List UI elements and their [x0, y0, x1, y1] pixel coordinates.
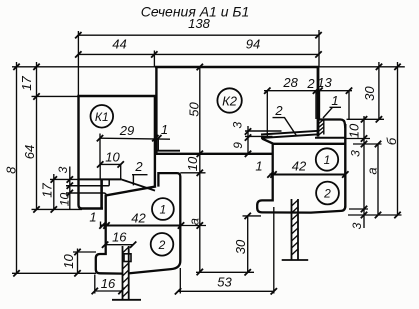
svg-text:53: 53: [217, 275, 232, 290]
label 1 right underline leader: [323, 107, 341, 118]
svg-text:3: 3: [56, 166, 70, 173]
extension y209.4 left: [32, 208, 83, 210]
K1 block top edge: [77, 95, 156, 97]
dim 29/1 line: [100, 138, 170, 139]
dim 10 bottom left vertical: [77, 249, 79, 274]
extension x94.8 down: [94, 275, 96, 294]
block1L ascending slope: [106, 186, 156, 195]
svg-text:3: 3: [350, 222, 364, 229]
dim 30 top right vertical: [378, 62, 380, 119]
extension x100: [99, 134, 101, 165]
extension line x154.4 top: [153, 51, 155, 68]
svg-text:2: 2: [274, 103, 283, 118]
block1R top edge: [262, 139, 345, 144]
dim 8 bottom extension: [12, 272, 96, 274]
extension x120.7 down: [120, 164, 122, 180]
extension y272.3: [196, 271, 254, 273]
svg-text:a: a: [364, 167, 379, 174]
svg-text:10: 10: [105, 149, 120, 164]
extension y138.5 right: [347, 138, 371, 140]
upper slope right: [261, 131, 319, 135]
dim 64 vertical: [36, 62, 38, 209]
svg-text:a: a: [186, 218, 201, 225]
svg-text:1: 1: [160, 203, 167, 217]
circle 2 left: [151, 233, 174, 256]
svg-text:1: 1: [255, 159, 262, 174]
svg-text:30: 30: [233, 239, 248, 254]
extension y136.4: [245, 135, 273, 137]
sash line y151: [158, 150, 181, 152]
svg-text:К1: К1: [95, 110, 109, 124]
svg-text:2: 2: [134, 159, 143, 174]
extension x100.5: [100, 222, 102, 229]
svg-text:30: 30: [362, 86, 377, 101]
tick on top line at x16.5: [13, 64, 19, 70]
extension y96.5 left: [32, 95, 79, 97]
extension y215.9: [243, 215, 262, 217]
svg-text:10: 10: [346, 123, 361, 138]
tick on top line at x397.5: [394, 64, 400, 70]
block1L left edge: [104, 195, 106, 226]
svg-text:16: 16: [112, 230, 127, 245]
inner short vertical x109: [108, 179, 110, 185]
dim 138 line: [78, 34, 318, 36]
extension line left x78: [77, 31, 79, 96]
dim 8 vertical: [16, 62, 18, 273]
top reference line thin right: [319, 66, 405, 68]
divider block1L/2L and dim 1/42: [101, 224, 182, 226]
anchor bar left: [122, 246, 124, 300]
svg-text:64: 64: [22, 145, 37, 159]
K1 block right edge: [154, 96, 156, 188]
svg-text:138: 138: [188, 16, 210, 31]
K1 bottom edge thick: [79, 178, 122, 180]
label 2 right underline leader: [273, 118, 297, 136]
svg-text:1: 1: [161, 122, 168, 137]
extension x349: [348, 91, 350, 120]
tick on top line at x379: [376, 64, 382, 70]
dim 53 line: [178, 290, 274, 292]
svg-text:1: 1: [331, 93, 338, 108]
circle 2 right: [316, 182, 339, 205]
extension y225.5 right of block: [181, 225, 206, 227]
top reference line thin left: [12, 66, 156, 68]
svg-text:17: 17: [19, 76, 34, 91]
svg-text:1: 1: [324, 153, 331, 167]
svg-text:К2: К2: [222, 93, 238, 108]
extension x158.3 down: [157, 139, 159, 151]
block1L top right step: [158, 173, 180, 225]
block1R right edge: [344, 124, 346, 208]
extension x180.3 down: [179, 268, 181, 294]
circle K1: [91, 105, 114, 128]
svg-text:29: 29: [119, 123, 134, 138]
svg-text:10: 10: [58, 193, 72, 207]
dim b right vertical: [397, 62, 399, 215]
dim 50/10/a vertical: [199, 67, 201, 272]
extension y172.8: [180, 172, 205, 174]
K2 block bottom edge: [155, 153, 272, 155]
dim 28/2/13 line: [264, 90, 352, 92]
dim 30 bottom right vertical: [247, 216, 249, 272]
extension y131: [245, 130, 282, 132]
extension x100.2 down: [99, 164, 101, 180]
extension x267.3: [266, 91, 268, 138]
extension y252: [73, 251, 96, 253]
dim 10 right vertical: [363, 116, 365, 228]
extension y119.3 right: [347, 118, 385, 120]
svg-text:13: 13: [317, 75, 332, 90]
tick on top line at x36.5: [33, 64, 39, 70]
K1 bottom line y179.4 ext part: [50, 178, 79, 180]
svg-text:42: 42: [292, 159, 307, 174]
svg-text:2: 2: [323, 187, 331, 201]
extension y215 right: [348, 214, 402, 216]
hatched strip hatch: [319, 119, 324, 134]
block1R left edge: [272, 144, 274, 175]
extension x316: [315, 91, 317, 119]
dim 3/10 left vertical: [69, 167, 71, 210]
svg-text:9: 9: [231, 142, 245, 149]
anchor bar right hatch: [292, 200, 299, 255]
svg-text:3: 3: [348, 150, 362, 157]
dim 3/9 vertical: [247, 126, 249, 155]
extension x319.5: [319, 91, 321, 119]
svg-text:28: 28: [282, 75, 298, 90]
lower slope right: [261, 134, 319, 138]
svg-text:3: 3: [230, 122, 244, 129]
svg-text:42: 42: [131, 210, 146, 225]
extension x273.8: [273, 207, 275, 294]
K1 block left edge: [79, 96, 104, 209]
hatched strip right edge: [323, 120, 325, 135]
divider block1R/2R dim 1/42: [270, 173, 346, 175]
svg-text:44: 44: [112, 37, 126, 52]
dim 10 K1 line: [100, 163, 121, 165]
K2 block right edge: [317, 67, 320, 137]
dim 16 bottom line: [95, 290, 123, 292]
inner line y193 with curve to slope: [66, 193, 107, 195]
svg-text:1: 1: [89, 210, 96, 225]
K2 block left edge: [155, 67, 157, 154]
svg-text:17: 17: [40, 183, 55, 198]
extension line right x319: [318, 30, 320, 67]
inner line y185.7: [66, 185, 109, 187]
svg-text:8: 8: [3, 166, 18, 174]
dim 17 lower vertical: [53, 174, 55, 209]
block1R raised top edge: [319, 120, 346, 129]
svg-text:10: 10: [185, 156, 200, 171]
anchor bar nagel head: [124, 254, 131, 262]
circle 1 left: [152, 198, 174, 220]
extension y144 right: [353, 143, 382, 145]
label 2 left underline and leader: [132, 175, 148, 186]
svg-text:2: 2: [158, 238, 166, 252]
svg-text:2: 2: [306, 76, 315, 91]
extension y209 right: [349, 208, 368, 210]
anchor bar left hatch: [123, 247, 129, 297]
K1 groove vertical: [100, 179, 103, 208]
svg-text:94: 94: [246, 37, 260, 52]
anchor bar left bottom T: [112, 299, 141, 301]
svg-text:б: б: [384, 137, 399, 145]
K1 descending slope: [122, 180, 155, 191]
block2R outline with tongue: [257, 175, 345, 213]
dim 16 top line: [105, 244, 133, 246]
block1R shoulder top edge: [315, 137, 345, 139]
block2L outline: [96, 226, 181, 274]
anchor bar right bottom T: [282, 259, 309, 261]
dim 44/94 line: [78, 53, 318, 55]
dim a right vertical: [377, 144, 379, 215]
svg-text:16: 16: [101, 276, 116, 291]
svg-text:10: 10: [61, 254, 76, 269]
top edge K2 block thick: [155, 66, 319, 69]
circle 1 right: [316, 148, 338, 170]
circle K2: [217, 88, 241, 112]
anchor bar right: [291, 199, 293, 260]
